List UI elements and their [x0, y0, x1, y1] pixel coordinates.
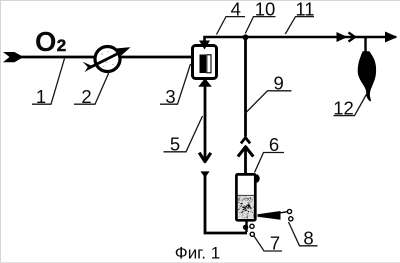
svg-text:12: 12 — [333, 97, 354, 118]
svg-text:5: 5 — [170, 134, 180, 155]
svg-text:4: 4 — [231, 0, 241, 19]
svg-text:6: 6 — [269, 134, 279, 155]
svg-text:2: 2 — [81, 86, 91, 107]
svg-text:7: 7 — [270, 233, 280, 254]
svg-text:1: 1 — [36, 86, 46, 107]
svg-text:3: 3 — [165, 86, 175, 107]
svg-text:Фиг. 1: Фиг. 1 — [175, 244, 220, 263]
svg-text:10: 10 — [255, 0, 276, 19]
svg-text:11: 11 — [295, 0, 314, 19]
svg-text:8: 8 — [303, 228, 313, 249]
svg-text:O: O — [35, 26, 56, 57]
svg-text:9: 9 — [273, 73, 283, 94]
svg-text:2: 2 — [57, 36, 66, 55]
